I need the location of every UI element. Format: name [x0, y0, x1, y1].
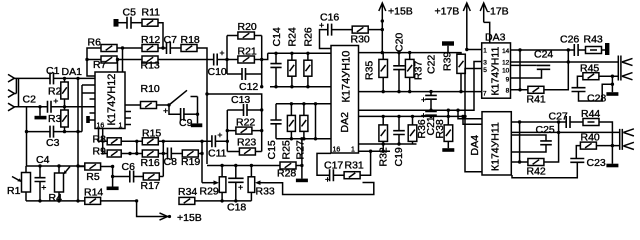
svg-text:DA2: DA2 — [339, 112, 351, 133]
capacitor C19 — [393, 116, 405, 144]
wire rail y53 to DA2 — [268, 52, 331, 54]
wire C8 to R19 — [171, 153, 182, 155]
node R8R9 vert — [136, 141, 138, 153]
svg-text:C1: C1 — [46, 65, 60, 77]
resistor R41 — [511, 50, 569, 93]
resistor R23 — [227, 148, 261, 155]
svg-text:R14: R14 — [84, 187, 103, 199]
resistor R42 — [511, 122, 558, 166]
node R4 bottom — [57, 199, 60, 202]
wire R18 right and long vertical x207 — [197, 48, 207, 164]
node rail116 x463 — [461, 115, 464, 118]
svg-text:-17В: -17В — [487, 6, 509, 18]
capacitor C28 — [572, 84, 613, 101]
resistor R26 — [304, 53, 312, 86]
input jack XS1 — [8, 74, 14, 82]
svg-text:C6: C6 — [122, 161, 136, 173]
svg-text:C2: C2 — [23, 94, 37, 106]
capacitor C8 — [168, 148, 172, 160]
node R40 right — [611, 144, 614, 147]
node +15 branch — [135, 199, 138, 202]
wire R29 rail y165.5 — [207, 165, 280, 167]
svg-text:1: 1 — [483, 47, 487, 54]
wire input top row — [14, 77, 50, 79]
resistor R2 — [61, 78, 68, 106]
node pin14 a — [518, 48, 521, 51]
capacitor C5 — [127, 17, 131, 29]
wire bottom row y201 — [26, 200, 85, 202]
resistor R13 — [142, 56, 158, 63]
wire input bus verticals — [16, 78, 18, 107]
svg-text:R8: R8 — [93, 134, 107, 146]
capacitor C3 — [50, 126, 54, 138]
wire vert x519 — [519, 122, 521, 162]
resistor R31 — [344, 151, 371, 179]
svg-text:C12: C12 — [239, 81, 258, 93]
svg-text:+15В: +15В — [177, 212, 202, 224]
wire jack2 stub — [14, 93, 16, 95]
svg-text:К174УН10: К174УН10 — [341, 51, 353, 103]
ground at output bottom — [606, 164, 618, 168]
resistor R37 — [405, 53, 414, 92]
node C3 row left — [25, 130, 28, 133]
input jack XS2 — [8, 90, 14, 98]
node R7 left — [85, 58, 88, 61]
node gnd stem — [38, 105, 41, 108]
wire pin12 long out — [511, 61, 619, 63]
wire rail y91.6 — [359, 91, 482, 93]
node T at y94 — [205, 92, 208, 95]
svg-text:R29: R29 — [200, 186, 219, 198]
svg-text:R35: R35 — [364, 61, 376, 80]
node R5 right — [111, 165, 114, 168]
node R22 row — [260, 129, 263, 132]
capacitor C18 — [228, 166, 243, 201]
svg-text:R6: R6 — [88, 37, 102, 49]
polarity tick at DA1 left — [86, 116, 90, 123]
trim resistor R4 — [55, 166, 64, 201]
svg-text:C15: C15 — [266, 140, 278, 159]
svg-text:R26: R26 — [303, 27, 315, 46]
capacitor C15 — [270, 104, 281, 139]
svg-text:R42: R42 — [527, 166, 546, 178]
svg-text:C28: C28 — [587, 93, 606, 105]
capacitor C22 — [421, 92, 437, 111]
svg-text:C11: C11 — [208, 148, 227, 160]
wire rail y110 to DA3 pin3 — [359, 62, 482, 111]
svg-text:R7: R7 — [93, 59, 107, 71]
node R2 top — [63, 77, 66, 80]
svg-text:R25: R25 — [281, 140, 293, 159]
wire row59 R7 to R13 — [117, 59, 142, 61]
node x370 rail — [369, 150, 372, 153]
node C4 bottom — [38, 199, 41, 202]
svg-text:1: 1 — [351, 147, 355, 154]
svg-text:R28: R28 — [277, 168, 296, 180]
output connector bottom — [620, 129, 623, 150]
svg-text:8: 8 — [506, 88, 510, 95]
wire R13 to C10 — [158, 59, 214, 61]
svg-text:12: 12 — [502, 60, 510, 67]
wire rail y104 — [276, 103, 331, 105]
svg-text:R10: R10 — [141, 83, 160, 95]
svg-text:DA3: DA3 — [485, 32, 506, 44]
capacitor C9 — [181, 108, 184, 121]
resistor R21 — [238, 56, 262, 63]
node x78 bottom row — [76, 164, 79, 167]
node row153 — [128, 152, 131, 155]
resistor R9 — [107, 150, 121, 157]
unconnected pin stubs DA1 — [90, 99, 132, 125]
-17V arrow — [484, 4, 490, 43]
svg-text:C7: C7 — [164, 34, 178, 46]
svg-text:+17В: +17В — [435, 6, 460, 18]
node rail +15 — [381, 51, 384, 54]
svg-text:R13: R13 — [141, 60, 160, 72]
trim resistor R33 — [248, 166, 255, 201]
node x163 top — [162, 140, 165, 143]
resistor R3 — [61, 107, 68, 132]
ground at output top — [611, 76, 613, 92]
svg-text:C26: C26 — [560, 34, 579, 46]
node C28 join — [611, 83, 614, 86]
resistor R35 — [379, 53, 388, 92]
resistor R7 — [101, 56, 117, 63]
svg-text:C13: C13 — [231, 94, 250, 106]
node x163 row153 — [162, 152, 165, 155]
wire vert x163 — [162, 141, 164, 176]
node R2-R3 — [63, 105, 66, 108]
node x202 top — [200, 140, 203, 143]
svg-text:DA4: DA4 — [469, 135, 481, 156]
resistor R6 — [101, 45, 117, 52]
capacitor C17 — [317, 153, 344, 181]
wire C1 to DA1 — [54, 77, 96, 79]
output pin bottom a — [623, 129, 634, 136]
node R29 bottoms — [220, 199, 223, 202]
wire rail y87 to DA2 — [270, 86, 331, 88]
svg-text:R19: R19 — [181, 156, 200, 168]
wire vert x315 — [315, 104, 317, 139]
wire C3 row — [27, 131, 83, 133]
svg-text:+15В: +15В — [388, 6, 413, 18]
node R45 right — [611, 75, 614, 78]
node R4 top — [57, 164, 60, 167]
svg-text:К174УН11: К174УН11 — [490, 47, 502, 96]
svg-text:R32: R32 — [378, 147, 390, 166]
svg-text:C5: C5 — [123, 7, 137, 19]
wire R5 node down — [112, 167, 114, 187]
resistor R45 — [577, 73, 618, 88]
capacitor C11 — [202, 133, 227, 148]
wire R15 right — [158, 140, 202, 142]
resistor R28 — [280, 162, 302, 169]
svg-text:R17: R17 — [141, 180, 160, 192]
node x202 mid — [200, 152, 203, 155]
svg-text:R36: R36 — [416, 119, 428, 138]
node on +15 vert — [381, 19, 384, 22]
resistor R14 — [85, 197, 137, 204]
resistor R44 — [583, 119, 612, 164]
svg-text:К174УН12: К174УН12 — [106, 74, 118, 126]
ground under input — [39, 107, 41, 116]
resistor R22 — [227, 127, 261, 134]
svg-text:14: 14 — [502, 48, 510, 55]
wire C9 loop — [169, 105, 181, 114]
op-amp DA2 K174UN10 — [331, 46, 359, 154]
wire R6 left column — [87, 48, 101, 76]
resistor R32 — [379, 116, 388, 151]
node v2 — [121, 46, 124, 49]
wire R28 up — [301, 139, 303, 166]
svg-text:R41: R41 — [527, 94, 546, 106]
wire C7 to R18 — [170, 47, 181, 49]
node C9 gnd — [196, 113, 199, 116]
output connector top — [618, 56, 621, 81]
svg-text:R22: R22 — [236, 117, 255, 129]
svg-text:3: 3 — [483, 59, 487, 66]
node switch — [167, 103, 170, 106]
node v1 — [116, 58, 119, 61]
svg-text:R5: R5 — [86, 171, 100, 183]
svg-text:R24: R24 — [287, 27, 299, 46]
svg-text:16: 16 — [97, 123, 105, 130]
wire R7 left — [87, 59, 101, 61]
wire C27 to R44 — [570, 121, 583, 123]
wire verticals to DA1 top — [118, 48, 123, 72]
capacitor C20 — [393, 53, 405, 92]
ground under R28 — [301, 166, 303, 179]
ground at C9 — [191, 123, 203, 127]
capacitor C14 — [270, 53, 281, 86]
wire middle input row — [14, 106, 95, 108]
svg-text:R33: R33 — [256, 186, 275, 198]
wire long vertical x78 — [77, 78, 79, 200]
svg-text:R31: R31 — [345, 160, 364, 172]
wire DA1 down to R9 — [103, 129, 108, 154]
svg-text:R30: R30 — [351, 34, 370, 46]
svg-text:R21: R21 — [238, 46, 257, 58]
svg-text:R45: R45 — [580, 63, 599, 75]
svg-text:R3: R3 — [48, 113, 62, 125]
wire jog to rail y53 — [262, 53, 268, 59]
svg-text:R18: R18 — [181, 34, 200, 46]
wire rail y144 — [359, 143, 417, 145]
+17V arrow — [466, 4, 468, 50]
svg-text:C23: C23 — [587, 157, 606, 169]
svg-text:9: 9 — [506, 76, 510, 83]
wire vertical left column — [26, 107, 28, 166]
svg-text:К174УН11: К174УН11 — [490, 122, 502, 171]
ground under R38 — [442, 148, 454, 152]
svg-text:C25: C25 — [536, 124, 555, 136]
wire DA1 to R10 — [125, 104, 141, 106]
svg-text:DA1: DA1 — [62, 66, 83, 78]
wire rail y116 to DA3 pin5 — [359, 69, 482, 117]
capacitor C26 — [574, 44, 578, 56]
resistor R20 — [227, 32, 262, 39]
svg-text:C16: C16 — [320, 12, 339, 24]
capacitor C16 — [319, 23, 352, 49]
svg-text:C24: C24 — [534, 49, 553, 61]
wire rail y151 — [359, 150, 391, 152]
wire rail +15 y52.6 — [359, 53, 462, 55]
wire R10 right — [157, 104, 170, 106]
op-amp DA3 K174UN11 — [482, 43, 511, 98]
svg-text:C4: C4 — [36, 154, 50, 166]
node C13 row — [260, 108, 263, 111]
wire C10 to loop — [217, 59, 238, 61]
svg-text:R34: R34 — [178, 186, 197, 198]
node x78 top — [76, 77, 79, 80]
resistor R40 — [576, 142, 619, 158]
input jack XS3 — [8, 103, 14, 111]
capacitor C6 — [130, 171, 134, 183]
trim resistor R29 — [219, 166, 226, 201]
svg-text:R44: R44 — [581, 108, 600, 120]
node R41 join — [567, 60, 570, 63]
node b — [557, 120, 560, 123]
terminal bar after R43 — [605, 43, 609, 55]
node C4 top — [38, 164, 41, 167]
svg-text:R20: R20 — [238, 21, 257, 33]
svg-text:C8: C8 — [164, 156, 178, 168]
resistor R38 — [444, 110, 453, 148]
resistor R30 — [352, 26, 382, 33]
wire R8 to R15 — [121, 140, 142, 142]
capacitor C12 — [227, 68, 262, 80]
wire C5 to R11 — [131, 22, 142, 24]
capacitor C21 — [421, 110, 437, 118]
resistor R24 — [288, 53, 296, 86]
node loop left — [225, 58, 228, 61]
resistor R10 — [141, 102, 157, 109]
node pin14 b — [567, 48, 570, 51]
svg-text:C17: C17 — [324, 160, 343, 172]
wire stubs into DA1 left — [82, 85, 95, 132]
terminal bar C5 — [114, 19, 119, 27]
resistor R12 — [142, 45, 158, 52]
svg-text:R43: R43 — [584, 34, 603, 46]
wire R16 to C8 — [158, 153, 167, 155]
node R11 drop — [161, 46, 164, 49]
wire C13 loop left vertical — [226, 110, 228, 152]
wire R9 to R16 — [121, 153, 142, 155]
svg-text:R2: R2 — [48, 86, 62, 98]
resistor R17 — [143, 173, 163, 180]
svg-text:R40: R40 — [581, 132, 600, 144]
wire DA4 left feeds — [458, 110, 482, 124]
svg-text:R23: R23 — [237, 137, 256, 149]
wire bar to C5 — [119, 22, 128, 24]
svg-text:C27: C27 — [549, 111, 568, 123]
capacitor C23 — [512, 159, 584, 178]
wire R11 down to row48 — [158, 23, 163, 48]
svg-text:C9: C9 — [179, 117, 193, 129]
wire R1 C4 R4 top row — [26, 165, 85, 167]
wire +17 to DA3 pin1 — [467, 49, 482, 51]
capacitor C25 — [511, 135, 552, 152]
svg-text:R27: R27 — [295, 140, 307, 159]
node R30 join — [381, 28, 384, 31]
wire R33 wiper path — [265, 183, 374, 195]
output pin top b — [622, 73, 633, 80]
svg-text:R1: R1 — [7, 185, 21, 197]
svg-text:7: 7 — [483, 91, 487, 98]
resistor R5 — [78, 163, 113, 170]
wire loop right vertical — [261, 36, 263, 87]
wire x465 down to DA4 — [465, 116, 482, 171]
node a — [518, 120, 521, 123]
node loop right bottom — [260, 85, 263, 88]
svg-text:C18: C18 — [227, 202, 246, 214]
resistor R18 — [181, 45, 197, 52]
op-amp DA1 K174UN12 — [95, 72, 125, 130]
node R42 join — [557, 131, 560, 134]
capacitor C13 — [227, 104, 261, 116]
resistor R15 — [142, 138, 158, 145]
svg-text:5: 5 — [483, 67, 487, 74]
node C6 branch — [111, 175, 114, 178]
resistor R19 — [182, 150, 198, 157]
resistor R16 — [142, 150, 158, 157]
svg-text:R38: R38 — [434, 119, 446, 138]
+15V arrow bottom — [137, 201, 168, 217]
capacitor C10 — [214, 51, 225, 66]
svg-text:R15: R15 — [142, 127, 161, 139]
wire R12 to C7 — [158, 47, 167, 49]
svg-text:C3: C3 — [46, 137, 60, 149]
output pin bottom b — [623, 142, 634, 149]
svg-text:C19: C19 — [393, 147, 405, 166]
capacitor C24 — [511, 65, 551, 78]
potentiometer R1 — [22, 166, 31, 201]
svg-text:R16: R16 — [141, 157, 160, 169]
svg-text:1: 1 — [119, 123, 123, 130]
node R3 bottom — [63, 130, 66, 133]
wire R19 right up — [198, 153, 202, 155]
wire vert x202 — [201, 141, 203, 182]
svg-text:C10: C10 — [208, 66, 227, 78]
terminal bar over rail — [442, 41, 454, 45]
resistor R25 — [287, 104, 295, 139]
wire C9 right — [184, 113, 198, 115]
node x78 C3 row — [76, 130, 79, 133]
node R28 right — [300, 164, 303, 167]
wire loop left vertical — [226, 36, 228, 75]
svg-text:R39: R39 — [442, 52, 454, 71]
resistor R8 — [107, 138, 121, 145]
output pin top a — [622, 58, 633, 65]
wire rail y139 to DA2 — [276, 138, 331, 140]
svg-text:10: 10 — [502, 67, 510, 74]
resistor R36 — [408, 116, 417, 144]
node rail110 x458 — [456, 109, 459, 112]
resistor R27 — [300, 104, 308, 139]
capacitor C27 — [566, 116, 570, 128]
svg-text:16: 16 — [333, 147, 341, 154]
capacitor C2 — [48, 101, 52, 113]
wire C6 row — [113, 176, 144, 178]
svg-text:R12: R12 — [141, 34, 160, 46]
+15V arrow top — [381, 4, 383, 53]
svg-text:C14: C14 — [271, 27, 283, 46]
svg-text:R37: R37 — [413, 61, 425, 80]
capacitor C7 — [167, 42, 171, 54]
wire DA1 pin16 down to R8 — [99, 129, 108, 142]
wire vert x520 — [519, 50, 521, 90]
svg-text:C22: C22 — [426, 55, 438, 74]
